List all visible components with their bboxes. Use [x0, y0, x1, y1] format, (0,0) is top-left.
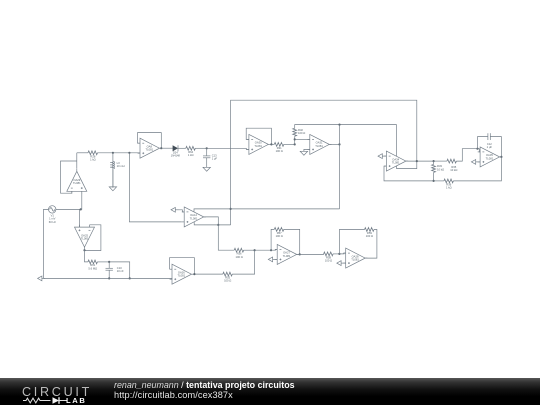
wire node Q to OA28 - input	[339, 252, 345, 255]
svg-text:TL081: TL081	[81, 237, 89, 241]
svg-text:TL081: TL081	[315, 144, 323, 148]
capacitor C13	[203, 148, 217, 167]
wire R59 to OA28 output	[365, 230, 377, 259]
svg-text:TL081: TL081	[254, 144, 262, 148]
wire node H up to R32	[294, 136, 296, 144]
node T junction (R33 bottom)	[433, 180, 435, 182]
op-amp OA27	[275, 244, 299, 264]
svg-text:1 kΩ: 1 kΩ	[446, 186, 452, 190]
svg-text:100 Ω: 100 Ω	[366, 234, 373, 238]
wire OA30 feedback box	[246, 128, 271, 144]
wire OA34 V- pin loop	[397, 161, 417, 169]
wire node T to R36	[434, 180, 444, 182]
capacitor C12 feedback	[478, 133, 502, 157]
node J junction (bus top)	[338, 124, 340, 126]
node H junction (R31/R32 bottom)	[294, 143, 296, 145]
svg-text:100 Ω: 100 Ω	[276, 149, 283, 153]
svg-text:10 mH: 10 mH	[117, 164, 125, 168]
wire node O to OA27 - input	[271, 248, 277, 251]
svg-text:100 Ω: 100 Ω	[276, 234, 283, 238]
op-amp OA25	[75, 225, 95, 250]
wire R35 to OA35 - input	[456, 149, 480, 161]
junction OA25 output/feedback	[83, 249, 85, 251]
node A junction (V1 / OA29 + / OA25 +)	[80, 208, 82, 210]
wire node F down to OA12 + input	[129, 153, 181, 222]
wire R31 to node H	[284, 143, 295, 145]
resistor R57	[274, 228, 283, 239]
junction OA30 output/feedback	[270, 143, 272, 145]
node U junction (OA35 - / C12)	[476, 148, 478, 150]
node D junction on rail	[129, 277, 131, 279]
svg-text:TL081: TL081	[145, 148, 153, 152]
node P junction (OA27 out)	[299, 253, 301, 255]
wire R57 to OA27 output	[284, 229, 300, 254]
CircuitLab logo	[22, 385, 92, 399]
wire OA29 output up to row-1	[76, 153, 78, 169]
resistor R55	[223, 272, 233, 283]
svg-text:TL081: TL081	[73, 181, 81, 185]
wire OA12 V+ pin to bus corner	[194, 209, 340, 212]
wire top rail down to OA34 V+ pin	[396, 125, 398, 157]
wire node A down to OA25 + input	[79, 209, 81, 227]
op-amp OA28	[343, 248, 367, 268]
net flag at OA27 + input	[268, 257, 277, 262]
wire OA29 feedback box	[61, 161, 77, 193]
svg-text:1N4148: 1N4148	[171, 154, 181, 158]
wire node S to R35	[434, 160, 447, 162]
resistor R59	[365, 228, 374, 239]
net flag at OA28 + input	[337, 261, 346, 266]
net flag at OA35 + input	[471, 160, 480, 165]
wire OA25 output to R61	[85, 249, 88, 262]
resistor R64	[186, 146, 196, 156]
node I junction (OA31 - tap)	[294, 138, 296, 140]
wire OA29 out to R28	[77, 152, 88, 154]
capacitor C10	[106, 262, 125, 279]
voltage source V1	[49, 206, 57, 224]
svg-text:TL081: TL081	[351, 258, 359, 262]
svg-text:1 μF: 1 μF	[212, 157, 218, 161]
node L junction (bus B crosses V+ net)	[230, 208, 232, 210]
wire R28 to OA8 + input	[97, 152, 140, 154]
wire R64 to node G	[195, 147, 207, 149]
resistor R32	[293, 128, 305, 136]
node B junction (R61/C10/wire)	[108, 261, 110, 263]
wire OA12 V- pin loop	[194, 222, 230, 225]
svg-text:100 Ω: 100 Ω	[298, 131, 305, 135]
svg-text:1 kΩ: 1 kΩ	[90, 157, 96, 161]
svg-text:100 Ω: 100 Ω	[235, 255, 242, 259]
svg-text:5.6 MΩ: 5.6 MΩ	[88, 266, 97, 270]
op-amp OA35	[478, 147, 502, 167]
svg-text:TL081: TL081	[486, 156, 494, 160]
op-amp OA34	[384, 151, 408, 171]
wire OA31 output to bus	[329, 143, 339, 145]
wire L3 to ground	[112, 170, 114, 187]
wire OA34 + input to bottom rail	[384, 166, 434, 181]
diode D24	[171, 145, 181, 157]
wire OA27 feedback up	[271, 229, 274, 250]
node G junction (C13 tap)	[206, 147, 208, 149]
wire D24 to R64	[178, 147, 186, 149]
top loop wire (OA34 out to bus B)	[231, 100, 417, 225]
node R junction (OA34 out 4-way)	[416, 160, 418, 162]
node C junction (C10 bottom on rail)	[108, 277, 110, 279]
wire V1 left terminal to ground rail corner	[44, 209, 49, 278]
node V junction (OA35 out)	[500, 156, 502, 158]
wire rail to OA26 + input	[171, 277, 173, 280]
op-amp OA8	[138, 138, 162, 158]
wire OA8 feedback box	[138, 133, 162, 149]
svg-text:TL081: TL081	[177, 274, 185, 278]
resistor R36	[444, 179, 453, 190]
svg-text:1 μF: 1 μF	[487, 145, 493, 149]
svg-text:TL081: TL081	[283, 254, 291, 258]
wire OA26 out to R55	[194, 273, 222, 275]
node E junction (L3 tap)	[112, 152, 114, 154]
resistor R56	[234, 248, 244, 258]
node N junction (R55/R56)	[254, 249, 256, 251]
resistor R28	[88, 151, 98, 161]
wire node N down to R55 row	[232, 250, 254, 274]
vertical bus wire	[339, 125, 341, 209]
svg-text:10 kΩ: 10 kΩ	[450, 168, 457, 172]
ground under L3	[109, 187, 116, 191]
ground rail wire	[44, 277, 173, 279]
wire OA29 + input down to node A	[81, 193, 82, 209]
node S junction (R33 top)	[433, 160, 435, 162]
wire node I to OA31 - input	[295, 138, 310, 140]
node K junction (OA31 out on bus)	[338, 143, 340, 145]
resistor R61	[88, 260, 98, 270]
wire V1 right terminal to node A	[56, 208, 81, 210]
junction OA26 output/feedback	[193, 273, 195, 275]
op-amp OA31	[307, 134, 331, 154]
wire OA25 feedback box	[85, 225, 101, 251]
net flag at OA34 - input	[378, 154, 386, 159]
op-amp OA12	[182, 207, 206, 227]
resistor R35	[447, 159, 457, 172]
wire node G to OA30 + input	[207, 148, 249, 149]
resistor R58	[324, 252, 333, 263]
wire OA12 output	[204, 217, 219, 225]
wire node N to node O	[255, 249, 272, 251]
svg-text:10 nF: 10 nF	[117, 269, 124, 273]
footer bar	[0, 378, 540, 405]
wire R61 to node B	[97, 261, 109, 263]
svg-text:TL081: TL081	[392, 161, 400, 165]
resistor R33	[432, 161, 444, 181]
wire OA31 + input to ground	[304, 149, 310, 151]
wire OA34 output	[406, 160, 434, 162]
wire OA27 output to R58	[297, 253, 324, 256]
wire OA26 feedback box	[170, 258, 195, 274]
wire node M down to R56 row	[218, 225, 234, 250]
wire R32 top to top-feedback rail	[295, 125, 397, 129]
node M junction (OA12 out)	[217, 224, 219, 226]
svg-text:10 kΩ: 10 kΩ	[437, 167, 444, 171]
ground at OA31 + input	[300, 151, 307, 155]
resistor R31	[274, 143, 283, 154]
node F junction (OA12 tap)	[128, 152, 130, 154]
wire node Q up to R59	[339, 230, 364, 254]
inductor L3	[110, 153, 124, 188]
node O junction (OA27 - / R57)	[270, 249, 272, 251]
junction OA8 output/feedback	[160, 147, 162, 149]
svg-text:100 Ω: 100 Ω	[325, 259, 332, 263]
node Q junction (OA28 - / R59)	[338, 253, 340, 255]
net flag at rail left end	[38, 276, 46, 281]
svg-text:60 Hz: 60 Hz	[49, 220, 57, 224]
wire OA8 output to D24	[161, 147, 173, 149]
wire OA35 output to bottom rail	[453, 157, 501, 181]
wire R58 to node Q	[333, 253, 339, 255]
svg-text:TL081: TL081	[190, 216, 198, 220]
wire R56 to node N	[244, 249, 255, 251]
wire node B right then down to rail	[109, 262, 130, 279]
op-amp OA30	[247, 134, 271, 154]
svg-text:100 Ω: 100 Ω	[224, 279, 231, 283]
net flag at OA12 - input	[171, 207, 184, 212]
ground under C13	[203, 167, 210, 171]
wire OA30 output to R31	[271, 143, 274, 145]
op-amp OA29	[67, 169, 87, 194]
op-amp OA26	[170, 264, 194, 284]
svg-text:1 kΩ: 1 kΩ	[188, 153, 194, 157]
